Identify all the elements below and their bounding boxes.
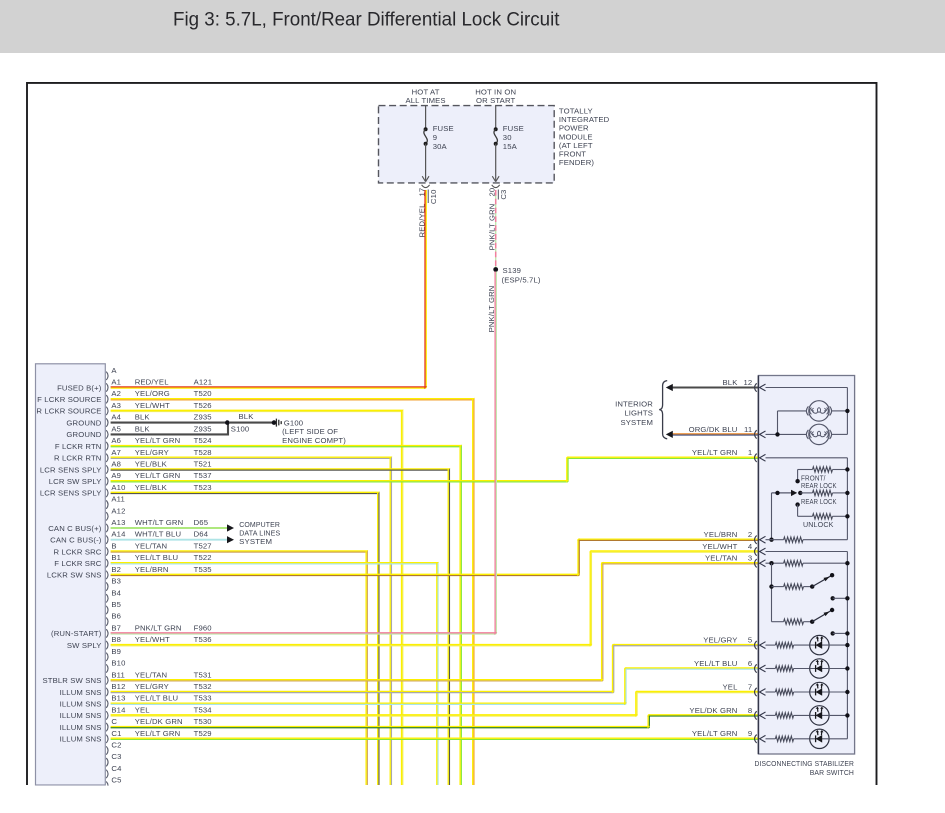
pin A13 bracket	[106, 524, 108, 532]
pin B9 bracket	[106, 653, 108, 661]
lamp circuit: pin 12 internal wire	[766, 387, 848, 389]
svg-text:MODULE: MODULE	[559, 132, 593, 141]
svg-text:2: 2	[748, 530, 752, 539]
svg-text:DISCONNECTING STABILIZER: DISCONNECTING STABILIZER	[755, 759, 855, 768]
svg-text:B13: B13	[111, 694, 125, 703]
ground G100	[272, 420, 277, 425]
stabilizer resistor 2	[772, 621, 784, 623]
svg-text:Fig 3: 5.7L, Front/Rear Differ: Fig 3: 5.7L, Front/Rear Differential Loc…	[173, 9, 560, 31]
svg-text:SYSTEM: SYSTEM	[620, 418, 653, 427]
svg-text:REAR LOCK: REAR LOCK	[801, 497, 837, 506]
svg-text:YEL/LT BLU: YEL/LT BLU	[694, 659, 738, 668]
svg-text:(AT LEFT: (AT LEFT	[559, 141, 593, 150]
svg-text:Z935: Z935	[194, 413, 212, 422]
svg-text:LCR SW SPLY: LCR SW SPLY	[49, 477, 102, 486]
svg-text:7: 7	[748, 682, 752, 691]
svg-text:YEL/BLK: YEL/BLK	[135, 483, 168, 492]
svg-text:OR START: OR START	[476, 96, 516, 105]
wire BLK S100 to G100	[229, 422, 274, 424]
pin A2 bracket	[106, 395, 108, 403]
lamp feed wire	[777, 411, 779, 435]
pin C1 bracket	[106, 735, 108, 743]
svg-text:A4: A4	[111, 413, 121, 422]
svg-text:ALL TIMES: ALL TIMES	[405, 96, 445, 105]
svg-text:S139: S139	[503, 266, 522, 275]
svg-text:BLK: BLK	[239, 412, 255, 421]
svg-text:(RUN-START): (RUN-START)	[51, 629, 102, 638]
wire B14 YEL to switch pin 7	[111, 692, 759, 716]
switch pin 6 terminal	[755, 664, 757, 672]
svg-text:ILLUM SNS: ILLUM SNS	[60, 700, 102, 709]
LED indicator pin 6	[766, 668, 776, 670]
switch pin 7 terminal	[755, 688, 757, 696]
wire A13 WHT/LT GRN to data link	[111, 527, 227, 529]
selector rail lower	[846, 552, 848, 739]
svg-text:F960: F960	[194, 623, 212, 632]
svg-text:YEL/LT GRN: YEL/LT GRN	[135, 471, 181, 480]
pin B11 bracket	[106, 676, 108, 684]
pin B10 bracket	[106, 664, 108, 672]
svg-text:T527: T527	[194, 542, 212, 551]
svg-text:UNLOCK: UNLOCK	[803, 520, 834, 529]
svg-text:GROUND: GROUND	[66, 418, 101, 427]
disconnecting stabilizer bar switch box	[758, 376, 854, 755]
svg-text:F LCKR SRC: F LCKR SRC	[54, 559, 102, 568]
svg-text:B12: B12	[111, 682, 125, 691]
svg-text:30: 30	[503, 133, 512, 142]
svg-text:BLK: BLK	[135, 424, 151, 433]
svg-text:LIGHTS: LIGHTS	[624, 409, 653, 418]
svg-text:PNK/LT GRN: PNK/LT GRN	[135, 623, 182, 632]
svg-text:9: 9	[748, 729, 752, 738]
svg-text:LCKR SW SNS: LCKR SW SNS	[47, 571, 102, 580]
TIPM C1/C2/C3 connector block (left)	[36, 364, 106, 785]
svg-text:T529: T529	[194, 729, 212, 738]
svg-text:ENGINE COMPT): ENGINE COMPT)	[282, 436, 346, 445]
svg-text:YEL/GRY: YEL/GRY	[135, 448, 169, 457]
svg-text:B2: B2	[111, 565, 121, 574]
svg-text:C: C	[111, 717, 117, 726]
switch pin 12 terminal	[755, 383, 757, 391]
svg-text:G100: G100	[284, 418, 303, 427]
pin 4 internal wire	[766, 551, 848, 553]
svg-text:FUSED B(+): FUSED B(+)	[57, 383, 102, 392]
svg-text:GROUND: GROUND	[66, 430, 101, 439]
pin C bracket	[106, 723, 108, 731]
svg-text:ILLUM SNS: ILLUM SNS	[60, 735, 102, 744]
pin A7 bracket	[106, 454, 108, 462]
pin C3 bracket	[106, 758, 108, 766]
wire A5 BLK up to S100	[111, 423, 228, 435]
pin A8 bracket	[106, 465, 108, 473]
TIPM power module box (dashed)	[379, 106, 555, 183]
svg-text:FUSE: FUSE	[433, 124, 454, 133]
svg-text:T526: T526	[194, 401, 212, 410]
connector C10 arc under fuse 9	[422, 185, 430, 188]
svg-text:T528: T528	[194, 448, 212, 457]
svg-text:C1: C1	[111, 729, 121, 738]
pin B13 bracket	[106, 700, 108, 708]
svg-text:A7: A7	[111, 448, 121, 457]
svg-text:YEL/TAN: YEL/TAN	[705, 554, 738, 563]
svg-text:B7: B7	[111, 623, 121, 632]
svg-text:YEL/LT GRN: YEL/LT GRN	[135, 436, 181, 445]
svg-text:T532: T532	[194, 682, 212, 691]
svg-text:4: 4	[748, 542, 753, 551]
pin B5 bracket	[106, 606, 108, 614]
svg-text:1: 1	[748, 448, 752, 457]
svg-text:C4: C4	[111, 764, 122, 773]
wire PNK/LT GRN from S139 to pin B7	[111, 272, 497, 635]
svg-text:B4: B4	[111, 588, 121, 597]
svg-text:HOT AT: HOT AT	[412, 88, 440, 97]
switch pin 8 terminal	[755, 711, 757, 719]
pin C2 bracket	[106, 746, 108, 754]
wire B YEL/TAN to bottom	[111, 552, 368, 786]
svg-text:PNK/LT GRN: PNK/LT GRN	[487, 286, 496, 333]
svg-text:RED/YEL: RED/YEL	[135, 378, 170, 387]
svg-text:YEL/LT GRN: YEL/LT GRN	[135, 729, 181, 738]
svg-text:C3: C3	[499, 190, 508, 200]
fuse F9 30A	[425, 106, 427, 130]
svg-text:B14: B14	[111, 705, 126, 714]
wire BLK 12 to interior lights	[672, 386, 758, 388]
switch pin 5 terminal	[755, 641, 757, 649]
svg-text:B1: B1	[111, 553, 121, 562]
wiper common wire	[771, 493, 773, 540]
svg-text:T531: T531	[194, 670, 212, 679]
wire ORG/DK BLU 11 to interior lights	[672, 434, 758, 436]
pin A1 bracket	[106, 383, 108, 391]
svg-text:T523: T523	[194, 483, 212, 492]
svg-text:T536: T536	[194, 635, 212, 644]
svg-text:A3: A3	[111, 401, 121, 410]
interior lights system brace	[659, 381, 667, 439]
svg-text:INTEGRATED: INTEGRATED	[559, 115, 610, 124]
pin C4 bracket	[106, 770, 108, 778]
svg-text:B10: B10	[111, 659, 125, 668]
svg-text:3: 3	[748, 554, 752, 563]
svg-text:(LEFT SIDE OF: (LEFT SIDE OF	[282, 427, 338, 436]
svg-text:15A: 15A	[503, 142, 518, 151]
wire B11 YEL/TAN to switch pin 3	[111, 563, 759, 681]
wire A14 WHT/LT BLU to data link	[111, 539, 227, 541]
wire B12 YEL/GRY to switch pin 5	[111, 645, 759, 693]
contact front/rear lock	[795, 479, 799, 483]
svg-text:T521: T521	[194, 460, 212, 469]
wire C YEL/DK GRN to switch pin 8	[111, 715, 759, 727]
wire B2 YEL/BRN to switch pin 2	[111, 540, 759, 576]
svg-text:B9: B9	[111, 647, 121, 656]
svg-text:A11: A11	[111, 495, 125, 504]
svg-text:YEL/WHT: YEL/WHT	[135, 401, 170, 410]
pin A6 bracket	[106, 442, 108, 450]
svg-text:C3: C3	[111, 752, 121, 761]
stabilizer contact 2	[831, 631, 835, 635]
svg-text:(ESP/5.7L): (ESP/5.7L)	[502, 276, 541, 285]
pin A bracket	[106, 372, 108, 380]
splice S100	[225, 420, 230, 425]
LED indicator pin 9	[766, 738, 776, 740]
svg-text:12: 12	[743, 378, 752, 387]
stabilizer switch blade 2	[810, 620, 814, 624]
svg-text:FRONT: FRONT	[559, 150, 586, 159]
switch pin 1 terminal	[755, 454, 757, 462]
illumination lamp 1	[778, 410, 807, 412]
svg-text:SW SPLY: SW SPLY	[67, 641, 102, 650]
pin B8 bracket	[106, 641, 108, 649]
svg-text:T534: T534	[194, 705, 213, 714]
svg-text:T537: T537	[194, 471, 212, 480]
pin B12 bracket	[106, 688, 108, 696]
wire B8 YEL/WHT to switch pin 4	[111, 552, 759, 646]
svg-text:C5: C5	[111, 776, 121, 785]
switch pin 11 terminal	[755, 430, 757, 438]
svg-text:5: 5	[748, 636, 752, 645]
svg-text:R LCKR SOURCE: R LCKR SOURCE	[36, 407, 101, 416]
pin 1 internal wire to rail	[766, 457, 848, 459]
svg-text:INTERIOR: INTERIOR	[615, 399, 653, 408]
pin A5 bracket	[106, 430, 108, 438]
wire A2 YEL/ORG to bottom	[111, 399, 474, 785]
svg-text:8: 8	[748, 706, 752, 715]
pin B2 bracket	[106, 571, 108, 579]
svg-text:A13: A13	[111, 518, 125, 527]
svg-text:LCR SENS SPLY: LCR SENS SPLY	[40, 489, 102, 498]
fuse F30 15A	[495, 106, 497, 130]
LED indicator pin 7	[766, 691, 776, 693]
stabilizer switch common wire	[771, 563, 773, 622]
svg-text:A10: A10	[111, 483, 125, 492]
svg-text:T535: T535	[194, 565, 212, 574]
svg-text:T533: T533	[194, 694, 212, 703]
svg-text:B: B	[111, 542, 116, 551]
svg-text:6: 6	[748, 659, 752, 668]
svg-text:T530: T530	[194, 717, 212, 726]
splice S139	[493, 267, 498, 272]
LED indicator pin 5	[766, 644, 776, 646]
pin B4 bracket	[106, 594, 108, 602]
diagram outer border	[27, 83, 877, 785]
pin C5 bracket	[106, 782, 108, 790]
wire RED/YEL from fuse 9 to pin A1	[111, 190, 427, 388]
switch pin 2 terminal	[755, 536, 757, 544]
pin A10 bracket	[106, 489, 108, 497]
svg-text:YEL/DK GRN: YEL/DK GRN	[689, 706, 737, 715]
header title bar	[0, 0, 945, 53]
svg-text:A12: A12	[111, 506, 125, 515]
wire B1 YEL/LT BLU to bottom	[111, 563, 438, 785]
pin A4 bracket	[106, 418, 108, 426]
svg-text:B8: B8	[111, 635, 121, 644]
svg-text:YEL/BLK: YEL/BLK	[135, 460, 168, 469]
svg-text:YEL/BRN: YEL/BRN	[704, 530, 738, 539]
svg-text:30A: 30A	[433, 142, 448, 151]
svg-text:ILLUM SNS: ILLUM SNS	[60, 723, 102, 732]
pin 3 internal resistor	[766, 562, 784, 564]
pin B14 bracket	[106, 711, 108, 719]
svg-text:B5: B5	[111, 600, 121, 609]
svg-text:ILLUM SNS: ILLUM SNS	[60, 711, 102, 720]
svg-text:D65: D65	[194, 518, 209, 527]
svg-text:B11: B11	[111, 670, 125, 679]
pin B6 bracket	[106, 618, 108, 626]
svg-text:A8: A8	[111, 460, 121, 469]
switch pin 4 terminal	[755, 547, 757, 555]
svg-text:WHT/LT GRN: WHT/LT GRN	[135, 518, 184, 527]
svg-text:A121: A121	[194, 378, 213, 387]
svg-text:R LCKR RTN: R LCKR RTN	[54, 454, 102, 463]
svg-text:ILLUM SNS: ILLUM SNS	[60, 688, 102, 697]
svg-text:R LCKR SRC: R LCKR SRC	[53, 547, 101, 556]
wire C1 YEL/LT GRN to switch pin 9	[111, 738, 759, 740]
pin B3 bracket	[106, 582, 108, 590]
svg-text:CAN C BUS(+): CAN C BUS(+)	[48, 524, 102, 533]
svg-text:BLK: BLK	[723, 378, 739, 387]
stabilizer contact 1	[831, 596, 835, 600]
wire A4 BLK to S100	[111, 422, 227, 424]
svg-text:11: 11	[744, 425, 752, 434]
stabilizer switch blade 1	[810, 584, 814, 588]
wire PNK/LT GRN dashed from fuse 30 to S139	[495, 190, 497, 270]
svg-text:HOT IN ON: HOT IN ON	[475, 88, 516, 97]
svg-text:9: 9	[433, 133, 437, 142]
pin A11 bracket	[106, 500, 108, 508]
stabilizer resistor 1	[772, 586, 784, 588]
svg-text:LCR SENS SPLY: LCR SENS SPLY	[40, 465, 102, 474]
wire B13 YEL/LT BLU to switch pin 6	[111, 669, 759, 705]
pin B bracket	[106, 547, 108, 555]
svg-text:STBLR SW SNS: STBLR SW SNS	[42, 676, 101, 685]
svg-text:YEL: YEL	[723, 682, 739, 691]
svg-text:YEL/DK GRN: YEL/DK GRN	[135, 717, 183, 726]
resistor rear lock	[798, 491, 802, 495]
svg-text:T522: T522	[194, 553, 212, 562]
selector rail upper	[846, 458, 848, 540]
svg-text:REAR LOCK: REAR LOCK	[801, 481, 837, 490]
svg-text:BLK: BLK	[135, 413, 151, 422]
wire A10 YEL/BLK to bottom	[111, 493, 379, 785]
svg-text:F LCKR RTN: F LCKR RTN	[55, 442, 102, 451]
svg-text:CAN C BUS(-): CAN C BUS(-)	[50, 536, 102, 545]
svg-text:FUSE: FUSE	[503, 124, 524, 133]
pin B1 bracket	[106, 559, 108, 567]
svg-text:POWER: POWER	[559, 124, 589, 133]
svg-text:ORG/DK BLU: ORG/DK BLU	[689, 425, 738, 434]
bottom clip mask	[0, 786, 945, 813]
LED indicator pin 8	[766, 714, 776, 716]
svg-text:F LCKR SOURCE: F LCKR SOURCE	[37, 395, 101, 404]
svg-text:WHT/LT BLU: WHT/LT BLU	[135, 530, 182, 539]
resistor unlock	[795, 502, 799, 506]
svg-text:YEL/LT GRN: YEL/LT GRN	[692, 448, 738, 457]
svg-text:A1: A1	[111, 378, 121, 387]
svg-text:YEL/LT BLU: YEL/LT BLU	[135, 553, 179, 562]
svg-text:YEL: YEL	[135, 705, 151, 714]
connector C3 arc under fuse 30	[492, 185, 500, 188]
svg-text:C2: C2	[111, 741, 121, 750]
pin B7 bracket	[106, 629, 108, 637]
svg-text:D64: D64	[194, 530, 209, 539]
svg-text:YEL/LT BLU: YEL/LT BLU	[135, 694, 179, 703]
wire A7 YEL/GRY to bottom	[111, 458, 392, 785]
svg-text:YEL/GRY: YEL/GRY	[703, 636, 737, 645]
svg-text:T520: T520	[194, 389, 212, 398]
svg-text:S100: S100	[231, 425, 250, 434]
svg-text:A2: A2	[111, 389, 121, 398]
svg-text:YEL/LT GRN: YEL/LT GRN	[692, 729, 738, 738]
pin A12 bracket	[106, 512, 108, 520]
switch pin 3 terminal	[755, 559, 757, 567]
svg-text:T524: T524	[194, 436, 213, 445]
svg-text:A9: A9	[111, 471, 121, 480]
svg-text:A6: A6	[111, 436, 121, 445]
svg-text:YEL/GRY: YEL/GRY	[135, 682, 169, 691]
resistor front/rear lock	[798, 469, 813, 471]
svg-text:FENDER): FENDER)	[559, 158, 595, 167]
wire A6 YEL/LT GRN to bottom	[111, 446, 462, 785]
svg-text:Z935: Z935	[194, 424, 212, 433]
svg-text:SYSTEM: SYSTEM	[239, 537, 272, 546]
wire A8 YEL/BLK to bottom	[111, 470, 450, 786]
svg-text:BAR SWITCH: BAR SWITCH	[810, 768, 854, 777]
svg-text:A5: A5	[111, 424, 121, 433]
svg-text:B6: B6	[111, 612, 121, 621]
wire A9 YEL/LT GRN to switch pin 1	[111, 458, 759, 482]
pin 2 internal resistor	[766, 539, 784, 541]
svg-text:YEL/ORG: YEL/ORG	[135, 389, 170, 398]
svg-text:YEL/WHT: YEL/WHT	[135, 635, 170, 644]
pin A14 bracket	[106, 536, 108, 544]
svg-text:YEL/TAN: YEL/TAN	[135, 542, 168, 551]
svg-text:YEL/TAN: YEL/TAN	[135, 670, 168, 679]
svg-text:YEL/BRN: YEL/BRN	[135, 565, 169, 574]
illumination lamp 2	[766, 433, 807, 435]
svg-text:A: A	[111, 366, 117, 375]
wire A3 YEL/WHT to bottom	[111, 411, 403, 785]
svg-text:YEL/WHT: YEL/WHT	[702, 542, 737, 551]
switch wiper	[772, 492, 792, 494]
svg-text:TOTALLY: TOTALLY	[559, 106, 593, 115]
svg-text:B3: B3	[111, 577, 121, 586]
svg-text:A14: A14	[111, 530, 126, 539]
switch pin 9 terminal	[755, 735, 757, 743]
pin A3 bracket	[106, 407, 108, 415]
pin A9 bracket	[106, 477, 108, 485]
svg-text:C10: C10	[429, 190, 438, 205]
